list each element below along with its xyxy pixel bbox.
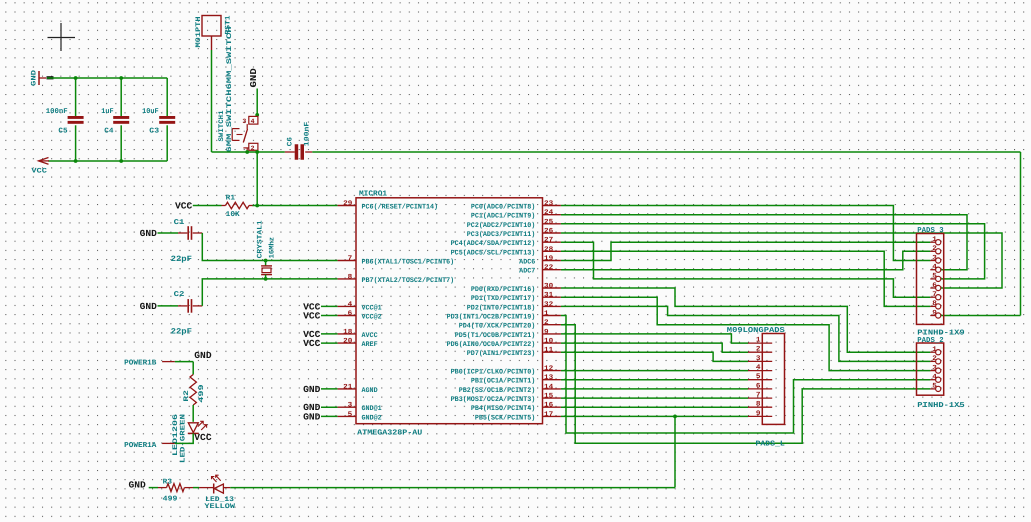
pin 27 PC4(ADC4/SDA/PCINT12) [451, 237, 561, 249]
svg-text:5: 5 [932, 273, 937, 281]
wire PB pin17 to M09 pin9 [561, 415, 748, 417]
svg-text:PD5(T1/OC0B/PCINT21): PD5(T1/OC0B/PCINT21) [455, 331, 536, 340]
svg-text:6: 6 [756, 382, 761, 390]
svg-text:LED-GREEN: LED-GREEN [179, 414, 187, 463]
pin 2 M09LONGPADS [748, 346, 772, 354]
svg-text:4: 4 [932, 264, 937, 272]
net label GND (IC pin 21) [303, 384, 338, 395]
pin 16 PB4(MISO/PCINT4) [471, 402, 561, 414]
svg-text:GND: GND [129, 480, 147, 491]
LED LED-13 YELLOW [204, 475, 236, 511]
svg-text:M01PTH: M01PTH [195, 17, 203, 48]
svg-text:PC3(ADC3/PCINT11): PC3(ADC3/PCINT11) [467, 230, 536, 239]
pin 4 M09LONGPADS [748, 364, 772, 372]
wire GND to R3 [149, 487, 158, 489]
resistor R1 10K [222, 194, 254, 219]
svg-text:5: 5 [348, 411, 353, 419]
pin 5 PADS_2 [930, 383, 941, 392]
wire PB pin14 to M09 pin6 [561, 388, 748, 390]
wire ADC7 pin22 to PADS_3 pin2 [561, 251, 931, 269]
svg-text:22pF: 22pF [171, 328, 193, 337]
svg-text:28: 28 [544, 246, 553, 254]
net label POWER1A [124, 442, 175, 450]
svg-text:ADC7: ADC7 [519, 268, 535, 276]
pin 1 PD3(INT1/OC2B/PCINT19) [447, 310, 561, 322]
wire ADC6 pin19 to PADS_3 pin1 [561, 242, 931, 260]
svg-text:23: 23 [544, 200, 553, 208]
svg-text:GND: GND [194, 350, 212, 361]
pin 10 PD6(AIN0/OC0A/PCINT22) [447, 338, 561, 350]
svg-text:19: 19 [544, 255, 553, 263]
wire C6 to far right column [312, 151, 1020, 153]
pin 20 AREF [338, 338, 378, 350]
svg-text:PC1(ADC1/PCINT9): PC1(ADC1/PCINT9) [471, 212, 535, 221]
pin 4 PADS_2 [930, 374, 941, 383]
pin 1 PADS_2 [930, 346, 941, 355]
pin 6 VCC@2 [338, 310, 382, 322]
pin 1 PADS_3 [930, 236, 941, 245]
wire PD5 pin9 to M09 pin1 [561, 334, 748, 343]
svg-text:17: 17 [544, 411, 553, 419]
svg-text:10: 10 [544, 338, 553, 346]
svg-text:PB6(XTAL1/TOSC1/PCINT6): PB6(XTAL1/TOSC1/PCINT6) [362, 258, 455, 267]
svg-text:1: 1 [932, 346, 937, 354]
svg-text:8: 8 [348, 273, 353, 281]
wire PD2 pin32 to PADS_2 pin2 [561, 306, 931, 361]
pin 12 PB0(ICP1/CLKO/PCINT0) [451, 365, 561, 377]
svg-text:22pF: 22pF [171, 255, 193, 264]
svg-text:PB2(SS/OC1B/PCINT2): PB2(SS/OC1B/PCINT2) [459, 386, 536, 395]
svg-text:PB5(SCK/PCINT5): PB5(SCK/PCINT5) [475, 413, 535, 422]
wire PB pin15 to M09 pin7 [561, 397, 748, 399]
pin 28 PC5(ADC5/SCL/PCINT13) [451, 246, 561, 257]
wire GND corner down to R2 [192, 362, 194, 375]
svg-text:MICRO1: MICRO1 [359, 190, 388, 199]
svg-text:20: 20 [343, 338, 352, 346]
wire PB pin16 to M09 pin8 [561, 406, 748, 408]
svg-text:R3: R3 [163, 478, 173, 486]
svg-text:SWITCH1: SWITCH1 [218, 111, 226, 142]
svg-text:PD2(INT0/PCINT18): PD2(INT0/PCINT18) [467, 303, 536, 312]
net label VCC (IC pin 6) [303, 311, 338, 322]
wire GND rail top [47, 77, 167, 79]
svg-text:26: 26 [544, 228, 553, 236]
node junction crystal top [264, 259, 268, 263]
svg-text:VCC: VCC [175, 201, 193, 212]
crystal CRYSTAL1 16Mhz [257, 220, 277, 279]
svg-text:3: 3 [932, 254, 937, 262]
wire PC5 pin28 to PADS_3 pin8 [561, 251, 931, 306]
pin 2 PADS_3 [930, 245, 941, 254]
pin 9 PADS_3 [930, 309, 941, 318]
svg-text:24: 24 [544, 209, 553, 217]
svg-text:C2: C2 [174, 291, 185, 299]
wire LED1206 to POWER1A [175, 433, 193, 443]
svg-text:7: 7 [756, 392, 761, 400]
connector PADS_3 PINHD-1X9 body [917, 227, 965, 337]
svg-text:PD7(AIN1/PCINT23): PD7(AIN1/PCINT23) [467, 349, 536, 358]
svg-text:4: 4 [756, 364, 761, 372]
svg-text:PC0(ADC0/PCINT8): PC0(ADC0/PCINT8) [471, 203, 535, 212]
svg-text:ATMEGA328P-AU: ATMEGA328P-AU [357, 429, 423, 438]
svg-text:4: 4 [348, 301, 353, 309]
capacitor C5 [46, 78, 84, 161]
pin 22 ADC7 [519, 264, 561, 276]
svg-text:100nF: 100nF [304, 122, 312, 147]
supply arrow VCC (top-left) [31, 158, 49, 176]
pin 23 PC0(ADC0/PCINT8) [471, 200, 561, 212]
svg-text:32: 32 [544, 301, 553, 309]
svg-text:VCC: VCC [31, 168, 47, 176]
svg-text:PB4(MISO/PCINT4): PB4(MISO/PCINT4) [471, 404, 535, 413]
svg-text:GND: GND [31, 70, 39, 86]
wire LED-13 anode rail [223, 487, 675, 489]
svg-text:21: 21 [343, 383, 352, 391]
svg-text:3: 3 [348, 402, 353, 410]
svg-text:POWER1A: POWER1A [124, 442, 157, 450]
wire switch junction down to R1 node [256, 152, 258, 206]
svg-text:VCC@2: VCC@2 [362, 313, 382, 322]
svg-text:PB1(OC1A/PCINT1): PB1(OC1A/PCINT1) [471, 377, 535, 386]
wire R2 to LED1206 [192, 405, 194, 422]
svg-text:CRYSTAL1: CRYSTAL1 [257, 220, 265, 258]
svg-text:11: 11 [544, 347, 553, 355]
svg-text:PB0(ICP1/CLKO/PCINT0): PB0(ICP1/CLKO/PCINT0) [451, 368, 536, 377]
svg-text:7: 7 [348, 255, 353, 263]
pin 6 PADS_3 [930, 282, 941, 291]
pin 25 PC2(ADC2/PCINT10) [467, 218, 561, 230]
svg-text:PD1(TXD/PCINT17): PD1(TXD/PCINT17) [471, 294, 535, 303]
net label PADS_L [756, 440, 786, 448]
svg-text:14: 14 [544, 383, 553, 391]
pin 8 PB7(XTAL2/TOSC2/PCINT7) [338, 273, 455, 285]
wire PD3 pin1 to PADS_2 pin4 [561, 316, 931, 434]
net label VCC (IC pin 20) [303, 338, 338, 349]
svg-text:PB7(XTAL2/TOSC2/PCINT7): PB7(XTAL2/TOSC2/PCINT7) [362, 276, 455, 285]
resistor R3 499 [158, 478, 193, 503]
svg-text:VCC: VCC [303, 338, 321, 349]
connector RST1 M01PTH [195, 16, 233, 51]
wire GND to switch pin4 [256, 89, 258, 115]
capacitor C2 22pF [158, 291, 203, 336]
pin 8 PADS_3 [930, 300, 941, 309]
node junction C4 bottom [119, 159, 123, 163]
net label VCC (R1) [175, 201, 193, 212]
pin 31 PD1(TXD/PCINT17) [471, 292, 561, 304]
svg-text:2: 2 [932, 355, 937, 363]
node junction R1 / reset net [255, 204, 259, 208]
svg-text:1: 1 [544, 310, 549, 318]
connector PADS_1 M09LONGPADS body [727, 327, 786, 425]
net label VCC (LED) [194, 432, 212, 443]
wire PC1 pin24 to PADS_3 pin4 [561, 215, 967, 270]
pin 9 PD5(T1/OC0B/PCINT21) [455, 328, 561, 340]
capacitor C6 [285, 122, 313, 160]
svg-text:PADS_L: PADS_L [756, 440, 786, 448]
svg-text:5: 5 [756, 373, 761, 381]
svg-text:18: 18 [343, 328, 352, 336]
svg-text:3: 3 [242, 118, 246, 125]
svg-text:ADC6: ADC6 [519, 259, 535, 267]
svg-text:PD6(AIN0/OC0A/PCINT22): PD6(AIN0/OC0A/PCINT22) [447, 340, 536, 349]
svg-text:1: 1 [756, 337, 761, 345]
wire PC0 pin23 to PADS_3 pin3 [561, 206, 931, 261]
pin 7 PB6(XTAL1/TOSC1/PCINT6) [338, 255, 455, 267]
wire VCC rail bottom [48, 160, 167, 162]
pin 8 M09LONGPADS [748, 401, 772, 409]
svg-text:2: 2 [251, 145, 255, 152]
svg-text:GND: GND [249, 67, 259, 87]
wire VCC to R1 [193, 205, 222, 207]
svg-text:C6: C6 [287, 137, 295, 146]
connector PADS_2 PINHD-1X5 body [917, 337, 966, 410]
svg-text:M09LONGPADS: M09LONGPADS [727, 327, 786, 335]
svg-text:9: 9 [932, 309, 937, 317]
svg-text:4: 4 [932, 374, 937, 382]
svg-text:16: 16 [544, 402, 553, 410]
pin 14 PB2(SS/OC1B/PCINT2) [459, 383, 561, 395]
net label VCC (IC pin 18) [303, 329, 338, 340]
svg-text:12: 12 [544, 365, 553, 373]
svg-text:499: 499 [198, 384, 206, 402]
node junction C5 top [74, 76, 78, 80]
svg-text:3: 3 [932, 364, 937, 372]
svg-text:PC4(ADC4/SDA/PCINT12): PC4(ADC4/SDA/PCINT12) [451, 239, 536, 248]
pin 7 M09LONGPADS [748, 392, 772, 400]
svg-text:6: 6 [348, 310, 353, 318]
wire PB pin13 to M09 pin5 [561, 379, 748, 381]
svg-text:C3: C3 [149, 127, 159, 135]
svg-text:8: 8 [756, 401, 761, 409]
pin 18 AVCC [338, 328, 378, 340]
svg-text:25: 25 [544, 218, 553, 226]
pin 6 M09LONGPADS [748, 382, 772, 390]
wire PD6 pin10 to M09 pin2 [561, 343, 748, 352]
svg-text:PC6(/RESET/PCINT14): PC6(/RESET/PCINT14) [362, 203, 439, 212]
svg-text:PB3(MOSI/OC2A/PCINT3): PB3(MOSI/OC2A/PCINT3) [451, 395, 536, 404]
svg-text:22: 22 [544, 264, 553, 272]
svg-text:PADS_2: PADS_2 [917, 337, 943, 345]
pin 5 GND@2 [338, 411, 382, 423]
svg-text:10K: 10K [226, 211, 241, 219]
svg-text:R2: R2 [183, 390, 191, 402]
svg-text:PADS_3: PADS_3 [917, 227, 944, 235]
pin 4 PADS_3 [930, 264, 941, 273]
pin 3 M09LONGPADS [748, 355, 772, 363]
resistor R2 499 [183, 375, 206, 406]
net label GND (C2) [140, 301, 158, 312]
node junction pin17 net [673, 415, 677, 419]
capacitor C1 22pF [158, 219, 203, 264]
junction blob at GND [47, 76, 54, 79]
net label GND (IC pin 5) [303, 411, 338, 422]
pin 4 VCC@1 [338, 301, 382, 313]
pin 3 GND@1 [338, 402, 382, 414]
pin 17 PB5(SCK/PCINT5) [475, 411, 561, 423]
net label GND (power) [194, 350, 212, 361]
pin 9 M09LONGPADS [748, 410, 772, 418]
svg-text:PINHD-1X5: PINHD-1X5 [917, 402, 965, 410]
svg-text:2: 2 [544, 319, 549, 327]
wire R1 to IC pin29 [253, 205, 338, 207]
svg-text:POWER1B: POWER1B [124, 360, 157, 368]
origin crosshair [48, 23, 76, 51]
wire PC2 pin25 to PADS_3 pin5 [561, 224, 985, 279]
net label POWER1B [124, 360, 175, 368]
pin 13 PB1(OC1A/PCINT1) [471, 374, 561, 386]
LED LED1206 LED-GREEN [172, 414, 207, 463]
svg-text:PC2(ADC2/PCINT10): PC2(ADC2/PCINT10) [467, 221, 536, 230]
node junction rail below switch [255, 150, 259, 154]
pin 24 PC1(ADC1/PCINT9) [471, 209, 561, 221]
wire C1 to IC pin7 [202, 233, 337, 261]
svg-text:PD0(RXD/PCINT16): PD0(RXD/PCINT16) [471, 285, 535, 294]
wire pin17 junction down to LED-13 rail [674, 416, 676, 487]
wire PD7 pin11 to M09 pin3 [561, 352, 748, 361]
svg-text:GND: GND [303, 384, 321, 395]
svg-text:PD4(T0/XCK/PCINT20): PD4(T0/XCK/PCINT20) [459, 322, 536, 331]
pin 32 PD2(INT0/PCINT18) [467, 301, 561, 313]
wire main rail from RST1 to C6 [212, 151, 285, 153]
svg-text:GND@1: GND@1 [362, 404, 382, 413]
pin 15 PB3(MOSI/OC2A/PCINT3) [451, 393, 561, 405]
pin 5 M09LONGPADS [748, 373, 772, 381]
net label GND (LED-13) [129, 480, 147, 491]
svg-text:C1: C1 [174, 219, 186, 227]
capacitor C3 [142, 78, 175, 161]
svg-text:3: 3 [756, 355, 761, 363]
svg-text:13: 13 [544, 374, 553, 382]
wire R3 to LED-13 [193, 487, 214, 489]
svg-text:GND: GND [140, 228, 158, 239]
pin 3 PADS_2 [930, 364, 941, 373]
wire C2 to IC pin8 [202, 279, 337, 306]
net label GND (switch) [249, 67, 259, 87]
wire RST1 to rail [211, 50, 213, 152]
pin 2 PADS_2 [930, 355, 941, 364]
node junction C5 bottom [74, 159, 78, 163]
svg-text:9: 9 [756, 410, 761, 418]
svg-text:8: 8 [932, 300, 937, 308]
wire PD1 pin31 to PADS_2 pin3 [561, 297, 931, 370]
svg-text:27: 27 [544, 237, 553, 245]
svg-text:YELLOW: YELLOW [204, 503, 236, 511]
pin 26 PC3(ADC3/PCINT11) [467, 228, 561, 240]
svg-text:VCC: VCC [194, 432, 212, 443]
svg-text:15: 15 [544, 393, 553, 401]
wire far-right column down to PADS_3 pin9 [941, 152, 1021, 316]
pin 30 PD0(RXD/PCINT16) [471, 283, 561, 295]
svg-text:6: 6 [932, 282, 937, 290]
pin 29 PC6(/RESET/PCINT14) [338, 200, 438, 212]
wire PC3 pin26 to PADS_3 pin6 [561, 233, 1002, 288]
svg-text:VCC: VCC [303, 311, 321, 322]
svg-text:1uF: 1uF [101, 108, 113, 116]
wire PB pin12 to M09 pin4 [561, 370, 748, 372]
pin 11 PD7(AIN1/PCINT23) [467, 347, 561, 359]
svg-text:7: 7 [932, 291, 937, 299]
svg-text:PD3(INT1/OC2B/PCINT19): PD3(INT1/OC2B/PCINT19) [447, 313, 536, 322]
svg-text:100nF: 100nF [46, 108, 68, 116]
svg-text:C4: C4 [104, 127, 114, 135]
wire PC4 pin27 to PADS_3 pin7 [561, 242, 931, 297]
svg-text:GND: GND [140, 301, 158, 312]
wire PD4 pin2 to PADS_2 pin5 [561, 325, 931, 444]
svg-text:30: 30 [544, 283, 553, 291]
svg-text:1: 1 [932, 236, 937, 244]
svg-text:VCC@1: VCC@1 [362, 303, 382, 312]
node junction switch pin2 [245, 150, 249, 154]
svg-text:16Mhz: 16Mhz [268, 237, 277, 259]
svg-text:31: 31 [544, 292, 553, 300]
pin 21 AGND [338, 383, 378, 395]
pin 5 PADS_3 [930, 273, 941, 282]
svg-text:AREF: AREF [362, 341, 378, 349]
pin 2 PD4(T0/XCK/PCINT20) [459, 319, 561, 331]
node junction C4 top [119, 76, 123, 80]
svg-text:PC5(ADC5/SCL/PCINT13): PC5(ADC5/SCL/PCINT13) [451, 248, 536, 257]
net label GND (C1) [140, 228, 158, 239]
svg-text:5: 5 [932, 383, 937, 391]
svg-text:GND: GND [303, 411, 321, 422]
net label VCC (IC pin 4) [303, 301, 338, 312]
pin 19 ADC6 [519, 255, 561, 267]
svg-text:6MM_SWITCH6MM_SWITCH: 6MM_SWITCH6MM_SWITCH [226, 27, 234, 153]
pin 1 M09LONGPADS [748, 337, 772, 345]
node junction switch pin4 [255, 113, 259, 117]
capacitor C4 [101, 78, 129, 161]
pin 3 PADS_3 [930, 254, 941, 263]
svg-text:499: 499 [163, 495, 178, 503]
node junction crystal bottom [264, 277, 268, 281]
svg-text:AVCC: AVCC [362, 332, 378, 340]
switch SWITCH1 6MM_SWITCH6MM_SWITCH [218, 27, 258, 153]
wire PD0 pin30 to PADS_2 pin1 [561, 288, 931, 352]
svg-text:C5: C5 [58, 127, 67, 135]
ground symbol GND (top-left) [31, 70, 47, 86]
wire POWER1B to GND corner [175, 361, 193, 363]
svg-text:2: 2 [932, 245, 937, 253]
op-amp U1 MICRO1 ATMEGA328P-AU body [356, 190, 543, 438]
svg-text:GND@2: GND@2 [362, 413, 382, 422]
svg-text:4: 4 [251, 118, 255, 125]
svg-text:R1: R1 [226, 194, 236, 202]
svg-text:AGND: AGND [362, 387, 378, 395]
net label GND (IC pin 3) [303, 402, 338, 413]
svg-text:29: 29 [343, 200, 352, 208]
pin 7 PADS_3 [930, 291, 941, 300]
svg-text:10uF: 10uF [142, 108, 159, 116]
svg-text:9: 9 [544, 328, 549, 336]
svg-text:2: 2 [756, 346, 761, 354]
